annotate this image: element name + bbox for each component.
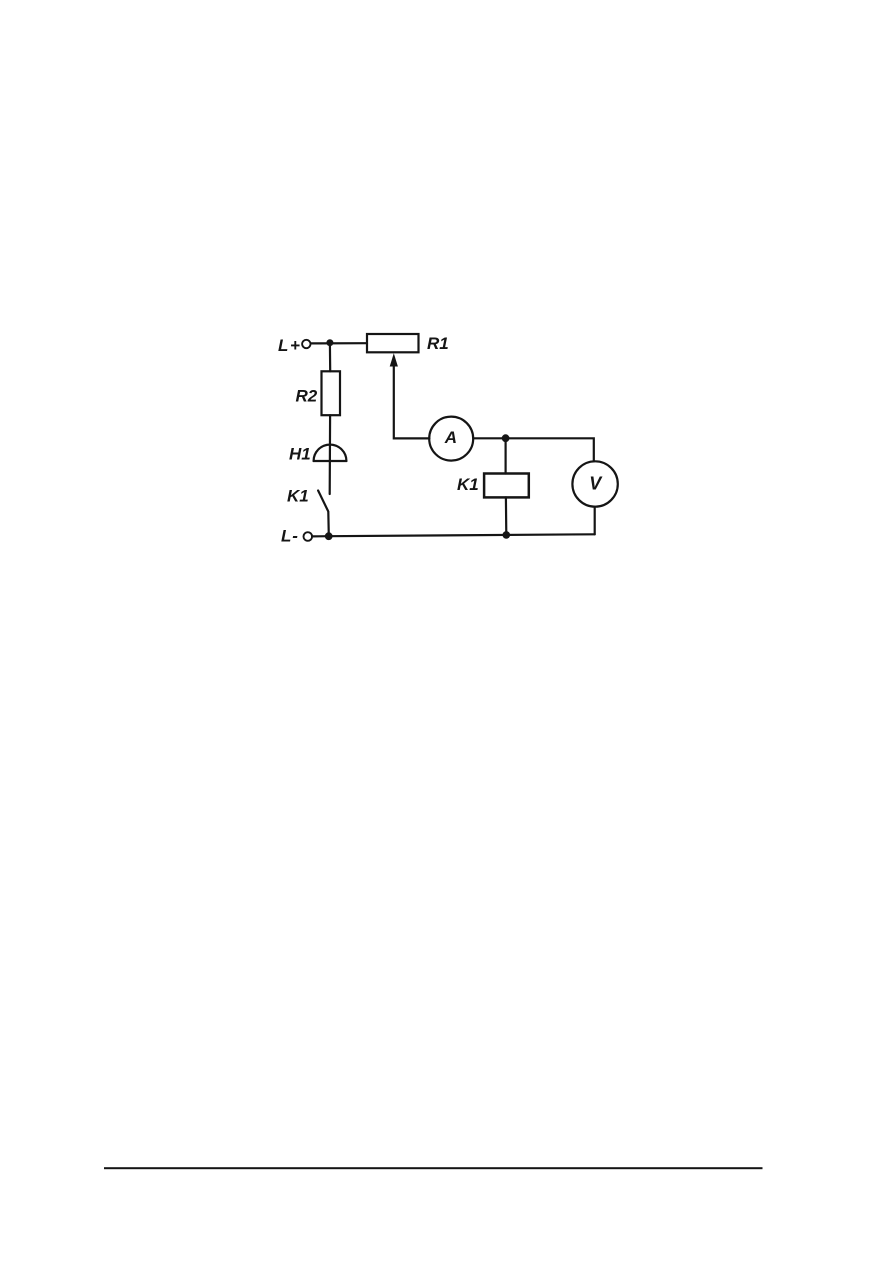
svg-text:-: - bbox=[292, 527, 298, 546]
svg-text:K1: K1 bbox=[287, 487, 309, 506]
svg-text:+: + bbox=[290, 336, 300, 355]
svg-text:K1: K1 bbox=[457, 475, 479, 494]
svg-text:R1: R1 bbox=[427, 334, 449, 353]
svg-text:L: L bbox=[278, 336, 288, 355]
svg-text:H1: H1 bbox=[289, 445, 311, 464]
svg-text:A: A bbox=[444, 428, 457, 447]
svg-text:R2: R2 bbox=[296, 387, 318, 406]
svg-text:L: L bbox=[281, 527, 291, 546]
svg-text:V: V bbox=[589, 474, 603, 494]
